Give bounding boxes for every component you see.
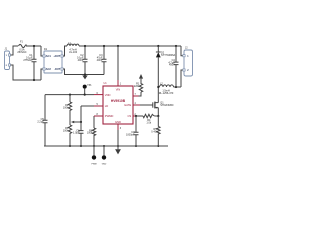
capacitor C2 (77, 46, 87, 75)
resistor R2 (63, 95, 72, 112)
wire VDD net (45, 94, 94, 96)
connector J2 (183, 46, 193, 76)
inductor L2 (158, 83, 181, 95)
connector J1 (5, 48, 11, 70)
svg-text:PWMD: PWMD (105, 114, 114, 118)
pin 5 LD (94, 104, 103, 106)
capacitor C3 (97, 46, 107, 75)
svg-text:STTH1R06A: STTH1R06A (161, 54, 176, 57)
svg-text:275VAC: 275VAC (23, 59, 32, 62)
potentiometer R3 (63, 112, 81, 146)
capacitor C6 (73, 122, 83, 146)
svg-text:LD: LD (105, 104, 108, 108)
inductor L1 (67, 42, 79, 54)
pin 3 GND (118, 124, 122, 130)
power arrow R1 (139, 74, 143, 79)
node rail C4 (175, 45, 177, 47)
wire J2 bottom to L2 (181, 70, 183, 87)
diode D2 (156, 46, 176, 87)
wire CS net (135, 115, 143, 117)
svg-text:100k: 100k (63, 106, 69, 109)
svg-text:STD2NM60: STD2NM60 (160, 104, 174, 107)
svg-text:VIN: VIN (116, 87, 121, 91)
op-amp U1 HV9910B (103, 82, 133, 124)
node VDD R2 (69, 94, 71, 96)
svg-text:+OUT: +OUT (53, 54, 60, 58)
ground bus (44, 145, 168, 147)
terminal PWM return (102, 146, 107, 165)
node rail C3 (103, 45, 105, 47)
node C4 L2 (175, 86, 177, 88)
pin 4 GATE (133, 103, 140, 105)
svg-text:1.0k: 1.0k (146, 122, 151, 125)
pin 8 PWMD (94, 114, 103, 116)
svg-text:226k: 226k (134, 85, 140, 88)
svg-text:450V: 450V (169, 64, 175, 67)
node bus R6 (93, 145, 95, 147)
svg-text:250VAC: 250VAC (17, 51, 26, 54)
terminal PWM input (91, 146, 96, 165)
fuse F1 (17, 41, 26, 54)
node switch L2 (157, 86, 159, 88)
pin 6 VDD (94, 93, 103, 95)
svg-text:CS: CS (127, 114, 131, 118)
node ground C2 (84, 73, 86, 75)
bridge rectifier D1 (43, 48, 63, 73)
svg-text:100k: 100k (63, 129, 69, 132)
node rail VIN (117, 45, 119, 47)
capacitor C4 (168, 46, 178, 87)
resistor R5 (151, 116, 160, 146)
wire drain (157, 87, 159, 103)
svg-text:1000pF: 1000pF (126, 133, 135, 136)
wire source (157, 108, 159, 116)
ground symbol DC bus (82, 75, 87, 80)
wire fuse to bridge AC1 (26, 46, 43, 56)
resistor R1 (134, 79, 143, 96)
wire VIN pin to rail (117, 46, 119, 80)
svg-text:100k: 100k (87, 132, 93, 135)
node VDD TP1 (84, 94, 86, 96)
svg-text:RL-1256-470: RL-1256-470 (159, 92, 174, 95)
wire bridge -OUT to ground line (63, 69, 104, 75)
svg-text:GND: GND (102, 163, 107, 165)
svg-text:-OUT: -OUT (54, 67, 61, 71)
svg-text:AC1: AC1 (46, 54, 52, 58)
svg-text:400V: 400V (78, 59, 84, 62)
svg-text:PWM: PWM (91, 163, 96, 165)
ground symbol main (115, 130, 121, 154)
svg-text:2.2µF: 2.2µF (37, 120, 44, 123)
wire rail to J2 top (181, 46, 183, 56)
capacitor C1 (23, 46, 36, 80)
svg-text:HV9910B: HV9910B (111, 99, 126, 103)
node bus pot (69, 145, 71, 147)
wire J1 top to fuse (11, 46, 18, 55)
transistor Q1 (153, 101, 174, 108)
node CS C7 (135, 115, 137, 117)
wire Vin+ rail (79, 45, 181, 47)
node bus R5 (157, 145, 159, 147)
node rail D2 (157, 45, 159, 47)
node bus C6 (80, 145, 82, 147)
svg-text:GATE: GATE (124, 103, 131, 107)
wire J1 bottom to bridge AC2 (11, 65, 43, 80)
pin 2 CS (133, 114, 137, 116)
capacitor C5 (37, 95, 47, 146)
capacitor C7 (126, 116, 138, 146)
node C1 top (33, 45, 35, 47)
wire GATE to Q1 (140, 104, 153, 106)
svg-text:400V: 400V (97, 59, 103, 62)
resistor R4 (143, 114, 158, 124)
svg-text:TP1: TP1 (87, 85, 92, 87)
svg-text:0.4Ω: 0.4Ω (151, 130, 156, 133)
node bus C7 (135, 145, 137, 147)
node LD wiper (80, 121, 82, 123)
pin 1 VIN (118, 80, 122, 86)
wire LD net (81, 106, 94, 122)
node bus GND (117, 145, 119, 147)
node source CS (157, 115, 159, 117)
resistor R6 (87, 116, 96, 146)
test point TP1 (83, 85, 93, 95)
pin 7 RT (133, 94, 139, 96)
svg-text:UL-100: UL-100 (69, 51, 78, 54)
svg-text:VDD: VDD (105, 93, 111, 97)
wire bridge +OUT up to Vin rail (63, 46, 67, 56)
node rail C2 (84, 45, 86, 47)
svg-text:1.0µF: 1.0µF (73, 132, 80, 135)
node bus terminal (103, 145, 105, 147)
svg-text:AC2: AC2 (46, 67, 52, 71)
node C1 bottom (33, 79, 35, 81)
svg-text:GND: GND (115, 120, 121, 124)
